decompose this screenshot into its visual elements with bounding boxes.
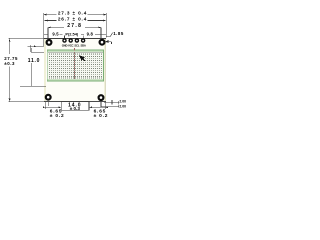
1.85 callout lines bbox=[106, 33, 112, 44]
11.0 upper arrow line bbox=[27, 45, 44, 48]
red centerline bbox=[74, 48, 76, 80]
dim line P2.54 row bbox=[44, 35, 106, 38]
right extension vertical bbox=[105, 13, 107, 38]
background bbox=[0, 0, 128, 128]
arrowheads bbox=[9, 14, 109, 109]
dim line 26.7 bbox=[45, 20, 106, 22]
svg-text:± 0.3: ± 0.3 bbox=[70, 106, 81, 111]
left vertical dim 27.75 bbox=[8, 38, 44, 101]
pin 1 GND bbox=[63, 39, 66, 42]
svg-text:VCC: VCC bbox=[68, 44, 73, 48]
svg-text:P(2.54): P(2.54) bbox=[65, 32, 78, 37]
hole bottom-left bbox=[46, 95, 51, 100]
pin 3 SCL bbox=[75, 39, 78, 42]
pin 2 VCC bbox=[69, 39, 72, 42]
svg-text:27.8: 27.8 bbox=[67, 23, 82, 29]
bottom right 2.00 dims bbox=[101, 100, 119, 108]
svg-text:26.7 ± 0.4: 26.7 ± 0.4 bbox=[58, 17, 87, 22]
hole top-right bbox=[100, 40, 105, 45]
pin 4 SDA bbox=[82, 39, 85, 42]
pin labels bbox=[62, 44, 86, 48]
svg-text:2.00: 2.00 bbox=[119, 104, 126, 108]
svg-text:SDA: SDA bbox=[80, 44, 85, 48]
11.0 vertical and lower reference bbox=[20, 63, 46, 87]
cursor arrow in display bbox=[80, 56, 85, 61]
bottom dim lines 6.65 bbox=[45, 106, 105, 108]
svg-text:1.85: 1.85 bbox=[113, 31, 124, 36]
svg-text:SCL: SCL bbox=[74, 44, 79, 48]
module PCB body bbox=[44, 38, 106, 102]
svg-text:GND: GND bbox=[62, 44, 68, 48]
left extension vertical bbox=[43, 13, 45, 47]
svg-text:11.0: 11.0 bbox=[28, 58, 40, 64]
svg-text:2.00: 2.00 bbox=[119, 100, 126, 104]
svg-text:27.75: 27.75 bbox=[4, 56, 18, 61]
11.0 bracket bbox=[31, 48, 44, 52]
dim line 27.8 + extensions to holes bbox=[48, 27, 101, 39]
hole top-left bbox=[47, 40, 52, 45]
svg-text:± 0.2: ± 0.2 bbox=[94, 113, 109, 119]
svg-text:9.5: 9.5 bbox=[52, 31, 59, 36]
svg-text:± 0.2: ± 0.2 bbox=[50, 113, 65, 119]
dimension texts bbox=[58, 11, 87, 22]
svg-text:9.8: 9.8 bbox=[87, 31, 94, 36]
svg-text:27.3 ± 0.4: 27.3 ± 0.4 bbox=[58, 11, 87, 16]
hole bottom-right bbox=[99, 95, 104, 100]
svg-text:±0.3: ±0.3 bbox=[4, 61, 15, 66]
FPC connector box 14.0 bbox=[61, 102, 89, 110]
dimension lines bbox=[8, 13, 118, 109]
bottom hole extensions bbox=[45, 102, 105, 109]
dim line 27.3 bbox=[44, 14, 107, 16]
display area bbox=[47, 48, 103, 81]
